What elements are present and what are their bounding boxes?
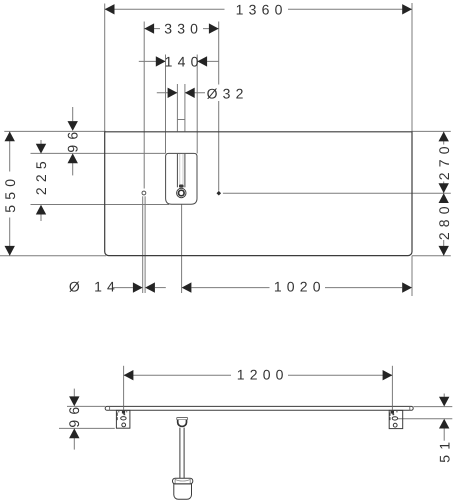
svg-text:Ø 14: Ø 14 [69, 279, 120, 295]
svg-text:1200: 1200 [237, 366, 289, 382]
svg-text:550: 550 [2, 174, 18, 213]
svg-text:96: 96 [66, 402, 82, 428]
svg-text:270: 270 [436, 141, 452, 180]
svg-text:1020: 1020 [274, 279, 326, 295]
svg-text:225: 225 [33, 156, 49, 195]
svg-text:330: 330 [164, 21, 203, 37]
svg-text:140: 140 [165, 53, 204, 69]
svg-text:280: 280 [436, 201, 452, 240]
svg-text:Ø32: Ø32 [207, 85, 249, 101]
svg-text:96: 96 [65, 127, 81, 153]
svg-text:1360: 1360 [236, 1, 288, 17]
svg-text:51: 51 [436, 437, 452, 463]
